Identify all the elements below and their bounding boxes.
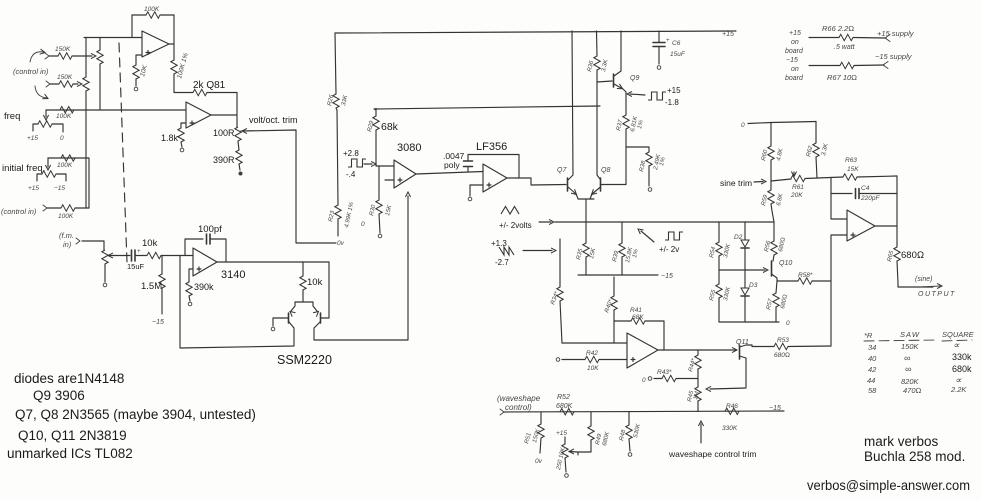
svg-text:R46: R46 bbox=[726, 403, 738, 410]
wire 3080 plus lead bbox=[385, 179, 394, 181]
wire emitter bus bbox=[578, 199, 594, 222]
resistor R44 bbox=[697, 350, 699, 355]
resistor R35 15K bbox=[585, 222, 587, 243]
svg-text:waveshape control trim: waveshape control trim bbox=[668, 449, 756, 459]
wire freq pot drop bbox=[45, 110, 47, 117]
squarewave symbol input bbox=[348, 159, 366, 167]
svg-text:freq: freq bbox=[4, 111, 20, 122]
wire sine plus input bbox=[831, 235, 847, 346]
svg-text:R42: R42 bbox=[586, 350, 598, 357]
svg-text:15uF: 15uF bbox=[127, 262, 145, 271]
triangle wave symbol bbox=[501, 207, 519, 215]
op-amp 3140 bbox=[193, 248, 217, 276]
svg-text:(waveshape: (waveshape bbox=[497, 394, 541, 403]
resistor R63 15K bbox=[843, 174, 857, 180]
curved arrow bottom bbox=[35, 86, 47, 98]
svg-text:2k Q81: 2k Q81 bbox=[193, 80, 226, 91]
resistor R30 15K bbox=[378, 166, 380, 200]
resistor 150K lower bbox=[50, 83, 59, 85]
resistor 10K bbox=[133, 65, 139, 79]
wire 68k top rail bbox=[374, 106, 600, 110]
svg-text:330K: 330K bbox=[722, 425, 738, 432]
svg-text:on: on bbox=[791, 66, 799, 73]
svg-text:C4: C4 bbox=[861, 185, 870, 192]
wire R36 / Q8 collector line bbox=[597, 31, 601, 179]
op-amp U1 bbox=[142, 31, 169, 57]
svg-text:40: 40 bbox=[868, 354, 877, 363]
resistor R38 2.49K bbox=[626, 147, 649, 152]
svg-text:∞: ∞ bbox=[905, 364, 911, 374]
wire sine minus input bbox=[831, 194, 847, 220]
resistor R55 330K bbox=[718, 270, 720, 284]
svg-text:+/- 2volts: +/- 2volts bbox=[499, 221, 532, 230]
wire U2 plus lead bbox=[181, 123, 186, 128]
svg-text:44: 44 bbox=[867, 376, 875, 385]
svg-text:Q9 3906: Q9 3906 bbox=[33, 388, 85, 403]
wire Q7 collector bbox=[568, 31, 573, 180]
svg-text:20K: 20K bbox=[790, 192, 803, 199]
svg-text:unmarked ICs TL082: unmarked ICs TL082 bbox=[7, 446, 133, 461]
resistor R53 680 bbox=[752, 346, 774, 348]
svg-text:verbos@simple-answer.com: verbos@simple-answer.com bbox=[807, 477, 970, 493]
resistor 100K freq bbox=[60, 107, 74, 113]
wire LF356 output to Q7 base bbox=[507, 178, 566, 185]
svg-text:D2: D2 bbox=[734, 234, 743, 241]
ground dot bbox=[239, 172, 243, 176]
svg-text:R41: R41 bbox=[630, 307, 642, 314]
ground bbox=[180, 148, 184, 152]
wire R34 branch bbox=[559, 239, 561, 287]
svg-text:R52: R52 bbox=[557, 394, 570, 401]
svg-text:+: + bbox=[137, 249, 141, 255]
svg-text:Q7, Q8 2N3565 (maybe 3904, unt: Q7, Q8 2N3565 (maybe 3904, untested) bbox=[15, 407, 256, 422]
svg-text:Q8: Q8 bbox=[601, 167, 610, 174]
resistor R57 680 bbox=[776, 281, 777, 293]
svg-text:10k: 10k bbox=[307, 277, 323, 288]
svg-text:+15: +15 bbox=[722, 31, 734, 38]
op-amp waveshaper bbox=[627, 333, 658, 368]
ground 0 bbox=[103, 283, 107, 287]
svg-text:+2.8: +2.8 bbox=[343, 149, 359, 158]
wire 3140 output bbox=[217, 261, 329, 263]
transistor Q right bar bbox=[320, 313, 322, 323]
svg-text:+: + bbox=[666, 38, 670, 44]
svg-text:+15 supply: +15 supply bbox=[877, 29, 915, 38]
wire sine output bbox=[875, 176, 897, 247]
svg-text:*R: *R bbox=[864, 331, 873, 340]
capacitor .0047 poly bbox=[467, 167, 469, 172]
svg-text:0v: 0v bbox=[337, 240, 345, 247]
op-amp U2 bbox=[186, 102, 211, 128]
wire top row to R62 bbox=[771, 122, 816, 123]
resistor R23 4.99K bbox=[337, 110, 338, 205]
svg-text:(sine): (sine) bbox=[915, 276, 933, 283]
dashed line bbox=[119, 43, 127, 262]
resistor 10k tail bbox=[302, 262, 304, 276]
wire U2 output bbox=[211, 114, 237, 116]
svg-text:Q7: Q7 bbox=[557, 167, 567, 174]
svg-text:Q10, Q11 2N3819: Q10, Q11 2N3819 bbox=[18, 428, 127, 443]
wire U1 plus input bbox=[136, 55, 142, 65]
svg-text:R53: R53 bbox=[777, 337, 789, 344]
wire main summing bus bbox=[46, 109, 186, 111]
svg-text:(control in): (control in) bbox=[13, 67, 49, 76]
svg-text:LF356: LF356 bbox=[476, 141, 507, 153]
capacitor C6 15uF bbox=[658, 31, 660, 42]
wire +15 rail bbox=[335, 31, 736, 33]
svg-text:3140: 3140 bbox=[221, 269, 245, 281]
svg-text:.5 watt: .5 watt bbox=[834, 44, 856, 51]
svg-text:control): control) bbox=[505, 403, 532, 412]
svg-text:OUTPUT: OUTPUT bbox=[918, 291, 956, 298]
svg-text:2.2K: 2.2K bbox=[950, 385, 967, 394]
resistor R56 680 bbox=[773, 222, 775, 241]
wire waveshaper output bbox=[658, 349, 736, 351]
svg-text:0: 0 bbox=[741, 122, 745, 129]
svg-text:100K: 100K bbox=[144, 6, 160, 13]
svg-text:∝: ∝ bbox=[955, 375, 962, 385]
wire waveshaper minus input bbox=[562, 342, 627, 344]
svg-text:150K: 150K bbox=[55, 46, 71, 53]
resistor R45 1M bbox=[695, 387, 701, 401]
svg-text:board: board bbox=[785, 48, 804, 55]
resistor R48 530K bbox=[628, 412, 630, 425]
svg-text:−15 supply: −15 supply bbox=[875, 52, 913, 61]
wire fm input bbox=[82, 241, 104, 250]
resistor 100K feedback bbox=[132, 14, 146, 16]
wire R40 branch bbox=[613, 277, 615, 296]
resistor R51 150K bbox=[540, 412, 542, 424]
svg-text:100R: 100R bbox=[213, 128, 235, 138]
svg-text:390R: 390R bbox=[213, 155, 235, 165]
wire Q10 gate row bbox=[719, 269, 765, 271]
svg-text:+15: +15 bbox=[27, 135, 38, 142]
svg-text:-2.7: -2.7 bbox=[495, 258, 509, 267]
resistor R34 bbox=[557, 287, 563, 301]
resistor R65 680 bbox=[894, 247, 900, 261]
trimmer on bus B bbox=[97, 50, 103, 64]
op-amp sine bbox=[847, 210, 875, 241]
svg-text:R66 2.2Ω: R66 2.2Ω bbox=[822, 24, 854, 33]
resistor R58 bbox=[777, 280, 798, 282]
svg-text:SQUARE: SQUARE bbox=[942, 330, 975, 339]
svg-text:R61: R61 bbox=[792, 184, 804, 191]
svg-text:15K: 15K bbox=[847, 166, 859, 173]
wire volt/oct trim arm bbox=[241, 130, 336, 243]
svg-text:220pF: 220pF bbox=[860, 195, 880, 202]
svg-text:1.8k: 1.8k bbox=[161, 133, 179, 143]
svg-text:diodes are1N4148: diodes are1N4148 bbox=[14, 371, 124, 386]
svg-text:volt/oct. trim: volt/oct. trim bbox=[249, 115, 298, 125]
wire triangle bus bbox=[555, 221, 774, 223]
transistor Q9 bbox=[613, 74, 615, 87]
node vertical bus B bbox=[99, 38, 101, 110]
resistor R49 680K bbox=[590, 412, 592, 426]
resistor 150K top bbox=[49, 55, 58, 57]
svg-text:15uF: 15uF bbox=[670, 51, 686, 58]
potentiometer R61 20K bbox=[791, 175, 805, 181]
arrow waveshape control trim bbox=[700, 424, 702, 443]
resistor 100K control2 bbox=[47, 207, 61, 209]
squarewave marker Q9 bbox=[630, 94, 645, 95]
resistor R29 68k bbox=[375, 109, 377, 117]
curved arrow top bbox=[30, 52, 44, 62]
wire 3080 output bbox=[416, 172, 483, 175]
svg-text:SAW: SAW bbox=[900, 330, 920, 339]
svg-text:0: 0 bbox=[361, 221, 365, 228]
trimmer 100R bbox=[235, 127, 241, 141]
resistor 390R bbox=[238, 141, 239, 150]
op-amp LF356 bbox=[483, 164, 507, 192]
svg-text:+/- 2v: +/- 2v bbox=[659, 245, 679, 254]
svg-text:34: 34 bbox=[868, 343, 876, 352]
capacitor 15uF bbox=[132, 250, 136, 261]
wire U1 minus input from summing box top bbox=[84, 37, 142, 39]
wire Q11 source to R45 bbox=[710, 388, 746, 389]
svg-text:680Ω: 680Ω bbox=[774, 352, 790, 359]
potentiometer freq bbox=[38, 121, 52, 127]
resistor R26 33K bbox=[335, 33, 336, 94]
resistor R59 6.8K bbox=[770, 181, 772, 190]
resistor R66 2.2ohm bbox=[809, 37, 839, 39]
diode D2 bbox=[744, 222, 746, 240]
svg-text:68k: 68k bbox=[381, 121, 399, 133]
svg-text:+15: +15 bbox=[28, 185, 39, 192]
svg-text:on: on bbox=[791, 39, 799, 46]
op-amp 3080 bbox=[394, 160, 416, 188]
wire plus input R42 bbox=[562, 359, 627, 361]
transistor Q7 bbox=[567, 178, 569, 191]
resistor 100K 1% bbox=[171, 60, 177, 74]
svg-text:in): in) bbox=[63, 240, 72, 249]
svg-text:sine trim: sine trim bbox=[720, 178, 752, 188]
svg-text:C6: C6 bbox=[672, 40, 681, 47]
svg-text:R43*: R43* bbox=[657, 369, 672, 376]
svg-text:+15: +15 bbox=[667, 86, 681, 95]
svg-text:+15: +15 bbox=[556, 430, 567, 437]
svg-text:0: 0 bbox=[642, 377, 646, 384]
svg-text:+1.3: +1.3 bbox=[491, 239, 507, 248]
svg-text:-1.8: -1.8 bbox=[665, 98, 679, 107]
wire integrator input bbox=[113, 255, 193, 257]
wire 3140 plus lead bbox=[189, 269, 193, 282]
wire 2k node bbox=[174, 92, 193, 94]
transistor pair SSM2220 bbox=[291, 302, 317, 311]
resistor 2k Q81 bbox=[193, 89, 207, 95]
resistor 100K initial bbox=[61, 155, 75, 161]
svg-text:330k: 330k bbox=[952, 352, 972, 362]
transistor Q10 jfet bbox=[771, 261, 773, 276]
potentiometer initial freq bbox=[42, 171, 56, 177]
resistor R36 3.3K bbox=[594, 56, 600, 70]
svg-text:board: board bbox=[785, 75, 804, 82]
svg-text:Q9: Q9 bbox=[630, 75, 639, 82]
svg-text:Buchla 258 mod.: Buchla 258 mod. bbox=[864, 449, 965, 464]
svg-text:150K: 150K bbox=[901, 342, 920, 351]
resistor R62 3.3K bbox=[815, 122, 817, 144]
svg-text:68K: 68K bbox=[632, 314, 644, 321]
wire U1 output leg / 100K 1% chain bbox=[169, 15, 174, 60]
resistor R52 680K bbox=[560, 409, 574, 415]
svg-text:(control in): (control in) bbox=[1, 207, 37, 216]
svg-text:∝: ∝ bbox=[953, 340, 960, 350]
resistor 390k bbox=[186, 282, 192, 296]
potentiometer fm bbox=[102, 250, 108, 264]
svg-text:(f.m.: (f.m. bbox=[59, 231, 74, 240]
svg-text:1.5M: 1.5M bbox=[141, 281, 162, 292]
svg-text:−15: −15 bbox=[54, 185, 65, 192]
resistor R42 10K bbox=[585, 356, 599, 362]
svg-text:poly: poly bbox=[444, 160, 460, 170]
wire Q9 base bbox=[597, 81, 612, 82]
svg-text:−15: −15 bbox=[769, 405, 781, 412]
wire pot drop bbox=[47, 158, 49, 167]
resistor R39 15.8K bbox=[621, 222, 623, 243]
svg-text:58: 58 bbox=[868, 386, 877, 395]
node vertical bus A bbox=[85, 38, 87, 209]
wire sine trim row bbox=[771, 179, 791, 181]
transistor Q left bar bbox=[288, 313, 290, 323]
svg-text:680k: 680k bbox=[952, 364, 972, 374]
svg-text:470Ω: 470Ω bbox=[903, 386, 922, 395]
svg-text:SSM2220: SSM2220 bbox=[277, 353, 332, 367]
svg-text:680K: 680K bbox=[556, 403, 573, 410]
resistor 10k bbox=[147, 252, 161, 258]
wire U1 feedback left leg bbox=[131, 15, 133, 38]
svg-text:0: 0 bbox=[786, 320, 790, 327]
svg-text:+15: +15 bbox=[789, 30, 801, 37]
svg-text:−15: −15 bbox=[661, 273, 673, 280]
wire waveshape bus bbox=[504, 411, 784, 412]
resistor R54 330K bbox=[718, 222, 720, 242]
svg-text:−15: −15 bbox=[152, 319, 164, 326]
resistor R43 bbox=[654, 378, 698, 380]
svg-text:100pf: 100pf bbox=[198, 224, 222, 235]
resistor R41 68K feedback bbox=[614, 320, 631, 322]
svg-text:42: 42 bbox=[868, 365, 877, 374]
svg-text:R58*: R58* bbox=[798, 272, 813, 279]
resistor R37 6.81K bbox=[623, 115, 629, 129]
resistor 1.5M bbox=[161, 256, 163, 275]
saw wave symbol bbox=[499, 247, 514, 255]
trimmer on bus A bbox=[83, 77, 89, 91]
wire LF356 plus lead bbox=[470, 185, 483, 196]
svg-text:680Ω: 680Ω bbox=[901, 250, 924, 261]
transistor Q8 bbox=[600, 178, 602, 191]
svg-text:10k: 10k bbox=[142, 238, 158, 249]
resistor 1.8k bbox=[178, 128, 184, 142]
svg-text:0: 0 bbox=[60, 135, 64, 142]
svg-text:Q10: Q10 bbox=[779, 260, 792, 267]
squarewave symbol 2v bbox=[665, 232, 683, 240]
svg-text:mark verbos: mark verbos bbox=[864, 434, 939, 449]
wire -15 row bbox=[578, 274, 658, 276]
svg-text:100K: 100K bbox=[56, 113, 72, 120]
resistor R60 4.8K bbox=[770, 123, 772, 147]
capacitor 100pf feedback bbox=[185, 239, 203, 256]
resistor R40 bbox=[611, 296, 617, 310]
svg-text:150K: 150K bbox=[57, 74, 73, 81]
ground 0 bbox=[134, 87, 138, 91]
diode D3 bbox=[744, 270, 746, 288]
svg-text:0v: 0v bbox=[535, 458, 543, 465]
svg-text:-.4: -.4 bbox=[346, 170, 356, 179]
svg-text:∞: ∞ bbox=[904, 353, 910, 363]
wire initial freq bbox=[48, 158, 89, 208]
resistor R46 330K bbox=[725, 408, 739, 414]
svg-text:820K: 820K bbox=[901, 377, 920, 386]
wire sine gnd row bbox=[719, 321, 779, 323]
ground bbox=[188, 302, 192, 306]
capacitor C4 220pF bbox=[831, 178, 852, 194]
svg-text:−15: −15 bbox=[786, 57, 798, 64]
svg-text:R67 10Ω: R67 10Ω bbox=[827, 73, 857, 82]
svg-text:100K: 100K bbox=[57, 162, 73, 169]
svg-text:100K: 100K bbox=[58, 213, 74, 220]
svg-text:initial freq.: initial freq. bbox=[2, 163, 45, 174]
svg-text:390k: 390k bbox=[194, 282, 214, 292]
svg-text:3080: 3080 bbox=[397, 142, 421, 154]
svg-text:D3: D3 bbox=[749, 282, 758, 289]
wire 3080 minus input bbox=[376, 165, 394, 167]
svg-text:10K: 10K bbox=[587, 365, 599, 372]
svg-text:R63: R63 bbox=[845, 157, 857, 164]
